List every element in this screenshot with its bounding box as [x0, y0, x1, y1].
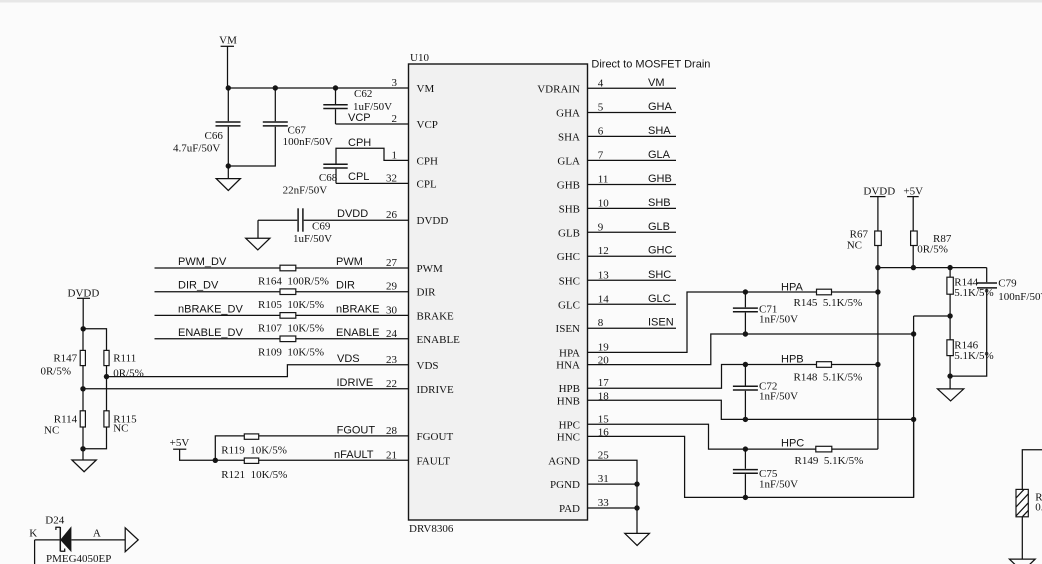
pin 31 PGND name [550, 473, 609, 491]
svg-text:4.7uF/50V: 4.7uF/50V [173, 143, 220, 155]
svg-text:GLC: GLC [558, 299, 580, 311]
svg-text:VCP: VCP [348, 112, 371, 124]
IC U10 body [409, 52, 588, 535]
wire DIR row [155, 291, 409, 293]
pin 11 GHB name [557, 174, 609, 192]
resistor R119 [221, 434, 287, 456]
ground (left of C69) [246, 220, 270, 250]
pin 25 AGND name [548, 449, 609, 467]
svg-text:nBRAKE: nBRAKE [336, 303, 379, 315]
svg-text:8: 8 [598, 317, 604, 329]
svg-text:GHA: GHA [648, 101, 673, 113]
wire HNB pin18 [588, 400, 914, 419]
pin 23 VDS name [386, 354, 439, 372]
pin 13 SHC name [559, 269, 610, 287]
wire VCP [336, 123, 409, 125]
pin 28 FGOUT name [386, 425, 453, 443]
pin 6 SHA name [558, 125, 604, 143]
svg-text:nBRAKE_DV: nBRAKE_DV [178, 303, 243, 315]
svg-text:R107 10K/5%: R107 10K/5% [258, 323, 324, 335]
svg-text:K: K [29, 527, 37, 539]
wire pin12 stub + net label GHC [588, 245, 677, 257]
svg-text:IDRIVE: IDRIVE [337, 377, 374, 389]
pin 15 HPC name [559, 413, 610, 431]
svg-text:CPH: CPH [417, 155, 438, 167]
pin 19 HPA name [559, 341, 609, 359]
pin 30 BRAKE name [386, 304, 454, 322]
svg-text:6: 6 [598, 125, 604, 137]
svg-text:C62: C62 [354, 88, 372, 100]
wire FGOUT [215, 436, 408, 460]
svg-text:AGND: AGND [548, 455, 580, 467]
capacitor C71 [733, 292, 798, 334]
svg-text:ENABLE_DV: ENABLE_DV [178, 327, 243, 339]
junction HPB/C72 [743, 362, 748, 367]
port arrow (diode A) [125, 528, 138, 552]
wire pin5 stub + net label GHA [588, 101, 677, 113]
ground (divider) [72, 460, 96, 472]
svg-text:BRAKE: BRAKE [417, 310, 455, 322]
svg-text:HNB: HNB [557, 395, 580, 407]
resistor R147 [40, 329, 85, 411]
svg-text:29: 29 [386, 281, 398, 293]
svg-text:GHB: GHB [648, 173, 672, 185]
svg-text:C69: C69 [312, 220, 331, 232]
pin 8 ISEN name [556, 317, 604, 335]
svg-text:PAD: PAD [559, 503, 580, 515]
pin 26 DVDD name [386, 209, 448, 227]
svg-text:22nF/50V: 22nF/50V [283, 184, 328, 196]
svg-text:7: 7 [598, 149, 604, 161]
svg-text:DVDD: DVDD [863, 186, 895, 198]
svg-text:DVDD: DVDD [68, 287, 100, 299]
svg-text:SHC: SHC [559, 275, 580, 287]
wire AGND pin25 [588, 460, 638, 533]
resistor R121 [221, 458, 287, 481]
junction VM/C62 [333, 85, 338, 90]
svg-text:SHB: SHB [648, 197, 671, 209]
svg-text:17: 17 [598, 377, 610, 389]
junction HNA/sense bus [911, 331, 916, 336]
capacitor C67 [228, 88, 332, 166]
svg-text:HNA: HNA [556, 360, 580, 372]
junction node/R144 [947, 265, 952, 270]
junction HPA/bus [875, 289, 880, 294]
svg-text:R147: R147 [53, 352, 77, 364]
wire nBRAKE row [155, 314, 409, 316]
junction pullup node [213, 458, 218, 463]
svg-text:DIR: DIR [336, 280, 355, 292]
svg-text:4: 4 [598, 77, 604, 89]
svg-text:GHC: GHC [557, 251, 580, 263]
wire HNA pin20 [588, 334, 914, 365]
junction C75/HNC [743, 495, 748, 500]
wire pin14 stub + net label GLC [588, 293, 677, 305]
svg-text:HPB: HPB [559, 383, 580, 395]
svg-text:1: 1 [392, 149, 398, 161]
svg-text:VDS: VDS [417, 360, 439, 372]
wire R148 to bus [832, 364, 878, 366]
svg-text:FAULT: FAULT [417, 455, 451, 467]
top window strip [0, 0, 1042, 3]
resistor R149 [795, 446, 864, 467]
wire pin7 stub + net label GLA [588, 149, 677, 161]
svg-text:R145 5.1K/5%: R145 5.1K/5% [794, 297, 863, 309]
svg-text:SHC: SHC [648, 269, 671, 281]
ground (AGND/PGND/PAD) [625, 533, 650, 545]
svg-text:22: 22 [386, 378, 397, 390]
svg-text:DIR: DIR [417, 287, 437, 299]
svg-text:DVDD: DVDD [337, 208, 368, 220]
junction C71/HNA [743, 331, 748, 336]
pin 14 GLC name [558, 293, 609, 311]
wire pin9 stub + net label GLB [588, 221, 677, 233]
pin 1 CPH name [392, 149, 438, 167]
svg-text:Direct to MOSFET Drain: Direct to MOSFET Drain [591, 59, 710, 71]
junction PGND [634, 481, 639, 486]
svg-text:11: 11 [598, 174, 609, 186]
svg-text:23: 23 [386, 354, 398, 366]
pin 33 PAD name [559, 497, 609, 515]
resistor R105 [258, 289, 324, 311]
wire R145 to bus [832, 291, 878, 293]
wire R149 to bus [832, 448, 878, 450]
pin 32 CPL name [386, 172, 437, 190]
svg-text:HPC: HPC [781, 437, 804, 449]
svg-text:HPC: HPC [559, 419, 580, 431]
pin 20 HNA name [556, 355, 609, 372]
svg-text:5.1K/5%: 5.1K/5% [954, 287, 993, 299]
pin 2 VCP name [392, 113, 438, 131]
junction divider bottom [80, 446, 85, 451]
svg-text:14: 14 [598, 293, 610, 305]
svg-text:D24: D24 [45, 514, 64, 526]
resistor R144 [947, 268, 994, 340]
junction HPC/C75 [743, 446, 748, 451]
svg-text:2: 2 [392, 113, 398, 125]
resistor far-right (hatched NC) [1016, 489, 1042, 516]
svg-text:ENABLE: ENABLE [336, 327, 379, 339]
junction VM/C66 [226, 85, 231, 90]
svg-text:GLB: GLB [558, 227, 580, 239]
junction R147/IDRIVE [80, 386, 85, 391]
svg-text:R164 100R/5%: R164 100R/5% [258, 275, 329, 287]
diode D24 PMEG4050EP [29, 514, 125, 564]
svg-text:VDS: VDS [337, 353, 360, 365]
wire CPL [336, 182, 409, 184]
wire pin10 stub + net label SHB [588, 197, 677, 209]
wire PWM row [155, 267, 409, 269]
svg-text:19: 19 [598, 341, 610, 353]
ground (below C66/C67) [216, 166, 240, 191]
svg-text:NC: NC [847, 239, 862, 251]
pin 9 GLB name [558, 221, 604, 239]
wire divider top branch [83, 329, 106, 351]
svg-text:5: 5 [598, 102, 604, 114]
svg-text:GLA: GLA [648, 149, 671, 161]
svg-text:26: 26 [386, 209, 398, 221]
svg-text:21: 21 [386, 449, 397, 461]
pin 10 SHB name [559, 197, 610, 215]
svg-text:HPA: HPA [781, 281, 803, 293]
junction R146 bottom [947, 373, 952, 378]
svg-text:GHB: GHB [557, 180, 580, 192]
wire HNC pin16 [588, 419, 914, 497]
power flag DVDD (left) [68, 287, 100, 329]
svg-text:31: 31 [598, 473, 609, 485]
capacitor C72 [733, 365, 798, 420]
svg-text:1uF/50V: 1uF/50V [293, 233, 332, 245]
wire far-right partial net [1022, 450, 1042, 490]
resistor R146 [947, 340, 994, 389]
svg-text:33: 33 [598, 497, 610, 509]
wire CPH net [336, 148, 409, 163]
svg-text:SHB: SHB [559, 203, 580, 215]
svg-text:C68: C68 [319, 172, 338, 184]
resistor R114 [44, 411, 85, 460]
capacitor C68 [283, 164, 348, 196]
pin 24 ENABLE name [386, 328, 460, 346]
svg-text:27: 27 [386, 257, 398, 269]
power flag VM [219, 35, 237, 89]
svg-text:13: 13 [598, 269, 610, 281]
power flag DVDD (right) [863, 186, 895, 231]
svg-text:PWM_DV: PWM_DV [178, 256, 227, 268]
svg-text:12: 12 [598, 245, 609, 257]
svg-text:HPA: HPA [559, 347, 580, 359]
pin 29 DIR name [386, 281, 436, 299]
svg-text:100nF/50V: 100nF/50V [283, 136, 333, 148]
svg-text:1nF/50V: 1nF/50V [759, 314, 798, 326]
svg-text:nFAULT: nFAULT [334, 449, 374, 461]
ground (far right, clipped) [1009, 559, 1035, 564]
wire PGND pin31 [588, 483, 638, 485]
svg-text:VDRAIN: VDRAIN [537, 83, 580, 95]
pin 5 GHA name [556, 102, 604, 120]
ground (R146/C79) [938, 389, 964, 401]
wire HPB pin17 [588, 365, 817, 389]
svg-text:GLA: GLA [557, 155, 580, 167]
capacitor C75 [733, 449, 798, 497]
svg-text:0R/5%: 0R/5% [917, 244, 948, 256]
svg-text:GHC: GHC [648, 245, 673, 257]
power flag +5V (left) [170, 437, 190, 460]
wire to far-right ground [1021, 517, 1023, 559]
wire +5V to pullups [179, 459, 215, 461]
svg-text:IDRIVE: IDRIVE [417, 384, 455, 396]
wire HPC pin15 [588, 424, 816, 449]
svg-text:PMEG4050EP: PMEG4050EP [46, 553, 111, 564]
wire VDS [107, 365, 409, 377]
svg-text:FGOUT: FGOUT [417, 431, 454, 443]
wire pin13 stub + net label SHC [588, 269, 677, 281]
svg-text:PWM: PWM [336, 256, 363, 268]
svg-text:PGND: PGND [550, 479, 580, 491]
svg-text:GHA: GHA [556, 108, 580, 120]
svg-text:R148 5.1K/5%: R148 5.1K/5% [794, 371, 863, 383]
capacitor C69 [258, 208, 409, 245]
svg-text:10: 10 [598, 197, 610, 209]
wire pin11 stub + net label GHB [588, 173, 677, 185]
svg-text:DVDD: DVDD [417, 215, 449, 227]
svg-text:C79: C79 [998, 278, 1017, 290]
junction HNB/sense bus [911, 417, 916, 422]
svg-text:ENABLE: ENABLE [417, 334, 461, 346]
pin 12 GHC name [557, 245, 609, 263]
power flag +5V (right) [903, 186, 923, 231]
svg-text:R121 10K/5%: R121 10K/5% [221, 469, 287, 481]
wire HPA pin19 [588, 292, 817, 352]
svg-text:ISEN: ISEN [648, 317, 674, 329]
svg-text:CPH: CPH [348, 137, 371, 149]
junction R111/VDS [104, 374, 109, 379]
wire pin6 stub + net label SHA [588, 125, 677, 137]
pin 3 VM name [392, 77, 435, 95]
wire IDRIVE [83, 388, 409, 390]
wire pin4 stub + net label VM [588, 77, 677, 89]
wire ENABLE row [155, 338, 409, 340]
wire pullup node row [878, 267, 987, 269]
svg-text:C66: C66 [205, 130, 224, 142]
svg-text:+5V: +5V [170, 437, 190, 449]
svg-text:GLB: GLB [648, 221, 670, 233]
junction DVDD divider top [81, 326, 86, 331]
svg-text:A: A [93, 527, 101, 539]
svg-text:R119 10K/5%: R119 10K/5% [221, 444, 287, 456]
svg-text:PWM: PWM [417, 263, 444, 275]
resistor R164 [258, 265, 329, 287]
svg-text:FGOUT: FGOUT [337, 425, 376, 437]
svg-text:1nF/50V: 1nF/50V [759, 391, 798, 403]
svg-text:U10: U10 [410, 52, 429, 64]
svg-text:DIR_DV: DIR_DV [178, 280, 219, 292]
svg-text:NC: NC [113, 422, 128, 434]
resistor R87 [911, 231, 952, 268]
resistor R148 [794, 362, 863, 384]
junction R144/R146 midpoint [947, 313, 952, 318]
svg-text:+5V: +5V [903, 186, 923, 198]
svg-text:100nF/50V: 100nF/50V [998, 291, 1042, 303]
svg-text:VCP: VCP [417, 119, 438, 131]
svg-text:R149 5.1K/5%: R149 5.1K/5% [795, 455, 864, 467]
svg-text:28: 28 [386, 425, 398, 437]
resistor R145 [794, 289, 863, 309]
wire HN sense bus vertical [914, 316, 951, 497]
svg-text:30: 30 [386, 304, 398, 316]
wire nFAULT [215, 459, 408, 461]
resistor R67 [847, 228, 882, 267]
resistor R109 [258, 336, 324, 359]
svg-text:CPL: CPL [348, 171, 369, 183]
svg-text:R105 10K/5%: R105 10K/5% [258, 299, 324, 311]
resistor R115 [83, 411, 137, 449]
junction VM/C67 [273, 85, 278, 90]
capacitor C62 [323, 88, 392, 124]
svg-text:R109 10K/5%: R109 10K/5% [258, 347, 324, 359]
svg-text:15: 15 [598, 413, 610, 425]
pin 18 HNB name [557, 390, 610, 407]
junction node/R67 [875, 265, 880, 270]
capacitor C79 [950, 268, 1042, 377]
svg-text:HPB: HPB [781, 354, 804, 366]
svg-text:32: 32 [386, 172, 397, 184]
junction C72/HNB [743, 417, 748, 422]
pin 4 VDRAIN name [537, 77, 604, 95]
svg-text:25: 25 [598, 449, 610, 461]
svg-text:SHA: SHA [648, 125, 671, 137]
wire VM bus [228, 87, 408, 89]
svg-text:DRV8306: DRV8306 [409, 523, 454, 535]
pin 21 FAULT name [386, 449, 450, 467]
svg-text:0R/5%: 0R/5% [40, 365, 71, 377]
pin 7 GLA name [557, 149, 603, 167]
svg-text:NC: NC [44, 425, 59, 437]
svg-text:5.1K/5%: 5.1K/5% [954, 350, 993, 362]
svg-text:1nF/50V: 1nF/50V [759, 479, 798, 491]
svg-text:C67: C67 [288, 125, 307, 137]
svg-text:R114: R114 [54, 413, 78, 425]
wire PAD pin33 [588, 507, 638, 509]
svg-text:CPL: CPL [417, 178, 437, 190]
svg-text:9: 9 [598, 221, 604, 233]
svg-text:VM: VM [417, 83, 435, 95]
resistor R107 [258, 313, 324, 335]
junction PAD [634, 505, 639, 510]
svg-text:0R/5%: 0R/5% [113, 367, 144, 379]
junction C66/C67 bottoms [226, 163, 231, 168]
svg-text:VM: VM [219, 35, 237, 47]
svg-text:0.: 0. [1035, 502, 1042, 514]
pin 27 PWM name [386, 257, 443, 275]
svg-text:SHA: SHA [558, 131, 580, 143]
junction HPB/bus [875, 362, 880, 367]
svg-text:GLC: GLC [648, 293, 671, 305]
wire pin8 stub + net label ISEN [588, 317, 677, 329]
svg-text:24: 24 [386, 328, 398, 340]
junction HPA/C71 [743, 289, 748, 294]
svg-text:ISEN: ISEN [556, 323, 581, 335]
svg-text:3: 3 [392, 77, 398, 89]
svg-text:HNC: HNC [557, 431, 580, 443]
resistor R111 [104, 350, 144, 410]
wire HP bus vertical [877, 268, 879, 450]
junction node/R87 [911, 265, 916, 270]
svg-text:VM: VM [648, 77, 665, 89]
pin 16 HNC name [557, 426, 610, 443]
capacitor C66 [173, 88, 241, 166]
pin 22 IDRIVE name [386, 378, 454, 396]
pin 17 HPB name [559, 377, 610, 395]
svg-text:R111: R111 [113, 352, 136, 364]
